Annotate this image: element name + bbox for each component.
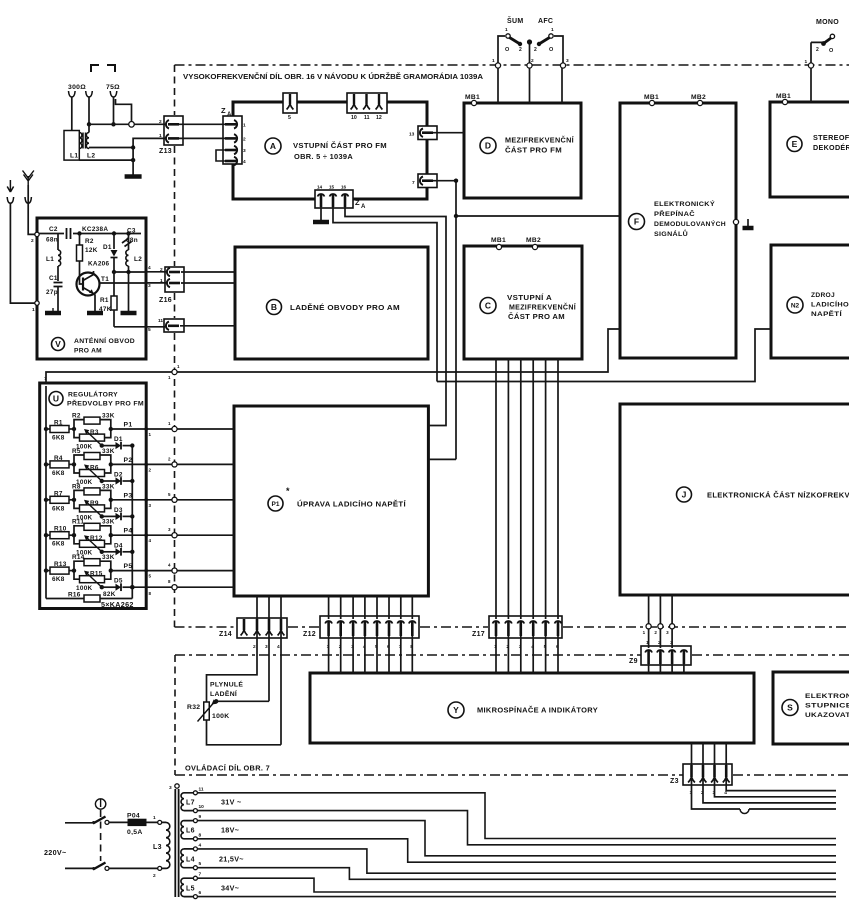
svg-text:L3: L3 <box>153 844 162 851</box>
svg-text:5: 5 <box>199 861 202 867</box>
svg-text:3: 3 <box>265 644 268 650</box>
svg-text:8: 8 <box>149 591 152 596</box>
connector Z9 <box>641 646 691 665</box>
svg-text:DEKODÉR: DEKODÉR <box>813 143 849 152</box>
svg-text:34V~: 34V~ <box>221 883 239 892</box>
resistor R13 6K8 <box>44 568 48 572</box>
svg-text:R4: R4 <box>54 455 63 462</box>
connector Z13 <box>164 116 183 145</box>
svg-text:7: 7 <box>199 872 202 878</box>
svg-text:1: 1 <box>805 59 808 65</box>
svg-text:1: 1 <box>153 815 156 821</box>
svg-text:MB1: MB1 <box>465 94 480 101</box>
svg-text:MB1: MB1 <box>491 237 506 244</box>
svg-text:5: 5 <box>288 115 291 121</box>
svg-text:7: 7 <box>412 180 415 186</box>
svg-text:82K: 82K <box>103 591 116 598</box>
svg-text:6K8: 6K8 <box>52 470 65 477</box>
wire secondary 9 to bottom bus <box>197 821 836 856</box>
svg-text:5: 5 <box>168 492 171 497</box>
potentiometer R9 100K <box>74 500 80 509</box>
svg-text:5×KA262: 5×KA262 <box>101 600 134 609</box>
svg-text:D: D <box>485 141 491 151</box>
wire secondary 6 bottom bus <box>197 896 836 898</box>
wire tuning bus to N2 <box>437 329 771 382</box>
svg-text:2: 2 <box>149 467 152 472</box>
svg-text:1: 1 <box>243 122 246 128</box>
svg-text:Z17: Z17 <box>472 631 485 638</box>
svg-text:R32: R32 <box>187 704 200 711</box>
svg-text:REGULÁTORY: REGULÁTORY <box>68 390 118 399</box>
svg-text:4: 4 <box>277 644 280 650</box>
svg-text:1: 1 <box>177 364 180 369</box>
resistor R5 33K <box>72 462 76 466</box>
wire lower pole to transformer <box>109 867 159 869</box>
svg-text:D2: D2 <box>114 472 123 479</box>
svg-text:R13: R13 <box>54 561 67 568</box>
svg-text:D1: D1 <box>103 244 112 251</box>
node P3 on dashed boundary <box>172 497 177 502</box>
nodes J wires on boundary <box>646 624 651 629</box>
diode D3 <box>100 514 104 518</box>
svg-text:LADĚNÉ OBVODY PRO AM: LADĚNÉ OBVODY PRO AM <box>290 303 400 312</box>
diode D1 KA206 <box>112 231 116 235</box>
block P1 UPRAVA LADICIHO NAPETI <box>234 406 428 596</box>
svg-text:33K: 33K <box>102 448 115 455</box>
svg-text:100K: 100K <box>212 713 229 720</box>
svg-text:Z16: Z16 <box>159 297 172 304</box>
connector pins 10 11 12 on top of block A <box>347 93 387 113</box>
svg-text:Y: Y <box>453 705 459 715</box>
boundary OVLADACI dil top dash-dot line <box>175 654 641 656</box>
wire 75 ohm to node <box>113 97 115 124</box>
svg-text:15: 15 <box>329 185 335 190</box>
svg-text:ČÁST PRO AM: ČÁST PRO AM <box>508 312 565 321</box>
resistor R8 33K <box>72 498 76 502</box>
svg-text:1: 1 <box>643 630 646 635</box>
node MB1 of block F <box>649 100 654 105</box>
svg-text:1: 1 <box>551 27 554 33</box>
potentiometer R3 100K <box>74 429 80 438</box>
svg-text:R11: R11 <box>72 519 84 526</box>
potentiometer R32 100K <box>204 702 210 720</box>
svg-text:F: F <box>634 217 639 227</box>
svg-text:3: 3 <box>566 58 569 64</box>
svg-text:KC238A: KC238A <box>82 226 108 233</box>
wires block Y bottom to Z3 <box>691 743 693 765</box>
potentiometer R12 100K <box>74 535 80 544</box>
transformer secondary L4 21,5V~ <box>181 849 184 868</box>
svg-text:R7: R7 <box>54 490 63 497</box>
svg-text:13: 13 <box>409 132 415 138</box>
block E STEREOFONNI DEKODER <box>770 102 849 197</box>
svg-text:P5: P5 <box>124 563 133 570</box>
svg-text:2: 2 <box>654 630 657 635</box>
svg-text:R2: R2 <box>72 413 81 420</box>
svg-text:R10: R10 <box>54 526 67 533</box>
wire secondary 4 to bottom bus <box>197 849 836 873</box>
block Y MIKROSPINACE A INDIKATORY <box>310 673 754 743</box>
connector Z17 <box>489 616 562 638</box>
block D MEZIFREKVENCNI CAST PRO FM <box>464 103 581 198</box>
svg-text:0,5A: 0,5A <box>127 829 143 836</box>
wire L2 top to antenna bus <box>88 124 90 132</box>
svg-text:4: 4 <box>243 159 246 165</box>
svg-text:L2: L2 <box>87 153 95 160</box>
resistor R1 6K8 <box>44 427 48 431</box>
wire T1 emitter to ground <box>94 294 96 312</box>
svg-text:MONO: MONO <box>816 19 839 26</box>
svg-text:220V~: 220V~ <box>44 848 66 857</box>
svg-text:11: 11 <box>364 115 370 121</box>
transformer core <box>175 789 178 897</box>
svg-text:1: 1 <box>149 432 152 437</box>
connector Z12 <box>320 616 419 638</box>
svg-text:PLYNULÉ: PLYNULÉ <box>210 680 243 689</box>
svg-text:2: 2 <box>253 644 256 650</box>
svg-text:31V ~: 31V ~ <box>221 798 241 807</box>
terminal 3 top of core <box>175 784 179 788</box>
block J ELEKTRONICKA CAST NIZKOFREKVENCNI <box>620 404 849 595</box>
resistor R14 33K <box>72 568 76 572</box>
block S ELEKTRONICKA STUPNICE <box>773 672 849 744</box>
resistor R2 12K <box>77 231 81 235</box>
wires Z9 to block Y <box>648 664 650 673</box>
wire Z13 to connector ZA pin2 <box>179 137 225 139</box>
svg-text:ELEKTRONICKÝ: ELEKTRONICKÝ <box>654 199 715 208</box>
svg-text:16: 16 <box>341 185 347 190</box>
svg-text:C1: C1 <box>49 275 58 282</box>
wire 75 ohm branch over to coax node <box>116 99 132 122</box>
svg-text:6: 6 <box>199 890 202 896</box>
wire R32 wiper to Z14 pin3 <box>214 699 218 703</box>
inductor L1 inside V <box>57 234 59 251</box>
wire junction 7 down to block P1 right edge <box>428 216 456 459</box>
wire AFC node to block D <box>561 68 563 103</box>
svg-text:V: V <box>55 339 61 349</box>
svg-text:14: 14 <box>317 185 323 190</box>
svg-text:3: 3 <box>168 527 171 532</box>
svg-text:4: 4 <box>149 538 152 543</box>
svg-text:P3: P3 <box>124 492 133 499</box>
svg-text:MB2: MB2 <box>691 94 706 101</box>
svg-text:ÚPRAVA LADICÍHO NAPĚTÍ: ÚPRAVA LADICÍHO NAPĚTÍ <box>297 500 407 509</box>
wire antenna to V pin 2 <box>28 185 37 234</box>
svg-text:11: 11 <box>199 786 204 792</box>
resistor R7 6K8 <box>44 498 48 502</box>
mains switch lower pole <box>65 867 94 869</box>
wire 300 ohm right leg to node <box>88 97 90 124</box>
svg-text:68n: 68n <box>46 237 58 244</box>
svg-text:Z14: Z14 <box>219 631 232 638</box>
svg-text:10: 10 <box>351 115 357 121</box>
boundary VF dil left dashed line <box>174 65 176 115</box>
wires Z3 pins to right edge <box>726 777 836 791</box>
wire U left rail <box>45 386 47 599</box>
wire Z13 pin1 to ground rail <box>133 138 166 160</box>
svg-text:R8: R8 <box>72 483 81 490</box>
svg-text:PŘEPÍNAČ: PŘEPÍNAČ <box>654 209 695 218</box>
svg-text:6K8: 6K8 <box>52 505 65 512</box>
block B LADENE OBVODY PRO AM <box>235 247 428 359</box>
svg-text:10: 10 <box>199 804 205 810</box>
svg-text:D4: D4 <box>114 542 123 549</box>
wire secondary 8 to bottom bus <box>197 839 836 862</box>
antenna symbol external <box>23 171 34 186</box>
svg-text:6K8: 6K8 <box>52 576 65 583</box>
svg-text:3: 3 <box>666 630 669 635</box>
svg-text:75Ω: 75Ω <box>106 84 120 91</box>
svg-text:Z3: Z3 <box>670 778 679 785</box>
block F ELEKTRONICKY PREPINAC DEMODULOVANYCH SIGNALU <box>620 103 736 358</box>
wire L1 box bottom to ground rail <box>79 159 133 161</box>
svg-text:6K8: 6K8 <box>52 435 65 442</box>
svg-text:N2: N2 <box>791 302 800 309</box>
svg-text:R12: R12 <box>90 535 103 542</box>
boundary OVLADACI dil left dashed line <box>174 655 176 775</box>
svg-text:2: 2 <box>168 456 171 461</box>
connector Z14 <box>237 618 287 638</box>
wire preset output P2 <box>109 462 113 466</box>
wire T1 collector to pin 3 row <box>94 271 168 283</box>
wire ZA pin16 to vertical x446 to block P1 <box>345 207 446 426</box>
svg-text:Z12: Z12 <box>303 631 316 638</box>
svg-text:D3: D3 <box>114 507 123 514</box>
wire secondary 5 to bottom bus <box>197 868 836 880</box>
svg-text:5: 5 <box>149 574 152 579</box>
svg-text:P1: P1 <box>272 501 280 508</box>
svg-text:Z: Z <box>355 198 360 207</box>
svg-text:2: 2 <box>153 873 156 879</box>
svg-text:18V~: 18V~ <box>221 826 239 835</box>
svg-text:VSTUPNÍ A: VSTUPNÍ A <box>507 293 552 302</box>
svg-text:STEREOFONNÍ: STEREOFONNÍ <box>813 133 849 142</box>
node P4 on dashed boundary <box>172 533 177 538</box>
svg-text:ŠUM: ŠUM <box>507 16 523 25</box>
resistor R2 33K <box>72 427 76 431</box>
wires block C bottom to Z17 to block Y <box>495 359 497 619</box>
svg-text:R15: R15 <box>90 571 103 578</box>
svg-text:D1: D1 <box>114 436 123 443</box>
transformer secondary L5 34V~ <box>181 878 184 896</box>
connector ZA bottom of block A pins 14 15 16 <box>315 190 353 208</box>
svg-text:AFC: AFC <box>538 18 553 25</box>
svg-text:R1: R1 <box>100 297 109 304</box>
svg-text:R1: R1 <box>54 420 63 427</box>
svg-text:3: 3 <box>149 503 152 508</box>
svg-text:2: 2 <box>243 136 246 142</box>
diode D5 <box>100 585 104 589</box>
transformer L1 L2 FM input <box>64 131 79 161</box>
boundary OVLADACI dil bottom dash-dot line <box>175 774 683 776</box>
svg-text:R5: R5 <box>72 448 81 455</box>
svg-text:OBR. 5 ÷ 1039A: OBR. 5 ÷ 1039A <box>294 152 353 161</box>
svg-text:MB1: MB1 <box>776 93 791 100</box>
svg-text:1: 1 <box>168 375 171 380</box>
svg-text:R16: R16 <box>68 592 81 599</box>
svg-text:ELEKTRONICKÁ ČÁST NÍZKOFREKVEN: ELEKTRONICKÁ ČÁST NÍZKOFREKVENČNÍ <box>707 491 849 500</box>
svg-text:T1: T1 <box>101 276 109 283</box>
svg-text:B: B <box>271 302 277 312</box>
svg-text:L6: L6 <box>186 828 195 835</box>
svg-text:VYSOKOFREKVENČNÍ DÍL OBR. 16 V: VYSOKOFREKVENČNÍ DÍL OBR. 16 V NÁVODU K … <box>183 72 483 81</box>
node 2 common on boundary <box>527 63 532 68</box>
svg-text:3: 3 <box>169 785 172 791</box>
svg-text:2: 2 <box>534 47 537 53</box>
wire common pole of SUM AFC <box>529 42 531 66</box>
svg-text:L1: L1 <box>70 153 78 160</box>
node MB1 of block C <box>496 244 501 249</box>
svg-text:LADĚNÍ: LADĚNÍ <box>210 689 238 698</box>
wire secondary 10 to bottom bus <box>197 811 836 845</box>
svg-text:2: 2 <box>816 47 819 53</box>
svg-text:O: O <box>829 48 834 54</box>
svg-text:7: 7 <box>44 376 47 382</box>
boundary VF dil top dash-dot line <box>175 64 849 66</box>
wire shorting ZA pins 3 and 4 <box>216 150 225 161</box>
svg-text:U: U <box>53 394 59 404</box>
svg-text:MEZIFREKVENČNÍ: MEZIFREKVENČNÍ <box>509 303 577 312</box>
balun corner marks <box>91 65 99 72</box>
output pin of block F with ground <box>733 219 738 224</box>
transformer L3 primary <box>158 820 162 824</box>
svg-text:3: 3 <box>148 283 151 289</box>
svg-text:ELEKTRONICKÁ: ELEKTRONICKÁ <box>805 691 849 700</box>
wire Z14 pin2 to R32 top <box>207 630 258 702</box>
svg-text:P04: P04 <box>127 813 140 820</box>
wire V block top rail <box>39 233 141 235</box>
svg-text:MB1: MB1 <box>644 94 659 101</box>
wire preset output P4 <box>109 533 113 537</box>
resistor R11 33K <box>72 533 76 537</box>
wire preset output P5 <box>109 568 113 572</box>
svg-text:P4: P4 <box>124 528 133 535</box>
node 3 AFC on boundary <box>560 63 565 68</box>
node 1 SUM on boundary <box>495 63 500 68</box>
svg-text:Z13: Z13 <box>159 148 172 155</box>
block C VSTUPNI A MEZIFREKVENCNI CAST PRO AM <box>464 246 582 359</box>
node MB1 of block E <box>782 99 787 104</box>
node P1 on dashed boundary <box>172 426 177 431</box>
block V ANTENNI OBVOD PRO AM <box>37 218 146 359</box>
svg-text:O: O <box>549 47 554 53</box>
svg-text:MEZIFREKVENČNÍ: MEZIFREKVENČNÍ <box>505 136 575 145</box>
svg-text:R2: R2 <box>85 238 94 245</box>
svg-text:1: 1 <box>492 58 495 64</box>
wires block P1 bottom to Z12 to block Y <box>328 596 330 619</box>
fuse P04 0.5A <box>109 821 159 823</box>
wire connector 13 to block D <box>433 132 464 134</box>
wire ground antenna to V pin 1 <box>10 203 37 303</box>
ground FM antenna <box>132 160 134 175</box>
resistor R4 6K8 <box>44 462 48 466</box>
svg-text:ANTÉNNÍ OBVOD: ANTÉNNÍ OBVOD <box>74 336 135 345</box>
connector Z3 <box>683 764 732 785</box>
svg-text:NAPĚTÍ: NAPĚTÍ <box>811 309 843 318</box>
svg-text:9: 9 <box>199 814 202 820</box>
svg-text:DEMODULOVANÝCH: DEMODULOVANÝCH <box>654 219 726 228</box>
wire preset output P1 <box>109 427 113 431</box>
node MB2 of block C <box>532 244 537 249</box>
svg-text:4: 4 <box>148 265 151 271</box>
svg-text:4: 4 <box>168 563 171 568</box>
svg-text:S: S <box>787 703 793 713</box>
wire connector 7 to junction and block F <box>433 181 620 216</box>
svg-text:33K: 33K <box>102 519 115 526</box>
svg-text:1: 1 <box>168 421 171 426</box>
svg-text:8: 8 <box>168 579 171 584</box>
wire common node to block D <box>529 68 531 103</box>
svg-text:O: O <box>505 47 510 53</box>
svg-text:VSTUPNÍ ČÁST PRO FM: VSTUPNÍ ČÁST PRO FM <box>293 141 387 150</box>
resistor R1 47K <box>113 272 115 296</box>
svg-text:300Ω: 300Ω <box>68 84 86 91</box>
svg-text:PRO AM: PRO AM <box>74 348 102 355</box>
capacitor C1 <box>57 266 59 281</box>
svg-text:MB2: MB2 <box>526 237 541 244</box>
wires Z16 to block B <box>181 271 235 273</box>
block N2 ZDROJ LADICIHO NAPETI <box>771 245 849 358</box>
potentiometer R15 100K <box>74 571 80 580</box>
inductor L2 inside V <box>126 231 130 235</box>
svg-text:ZDROJ: ZDROJ <box>811 292 835 299</box>
node P5 on dashed boundary <box>172 568 177 573</box>
ground antenna symbol with down arrow <box>7 180 13 192</box>
connector 7 right of block A <box>418 174 437 188</box>
wire preset output P3 <box>109 498 113 502</box>
svg-text:L2: L2 <box>134 256 142 263</box>
svg-text:A: A <box>361 204 366 210</box>
svg-text:ČÁST PRO FM: ČÁST PRO FM <box>505 146 562 155</box>
capacitor C2 <box>67 228 71 239</box>
svg-text:UKAZOVATELE: UKAZOVATELE <box>805 712 849 719</box>
svg-text:33K: 33K <box>102 554 115 561</box>
connector pin 5 on top of block A <box>283 93 297 113</box>
svg-text:1: 1 <box>32 307 35 313</box>
svg-text:33K: 33K <box>102 413 115 420</box>
resistor R16 82K <box>46 598 84 600</box>
svg-text:2: 2 <box>31 238 34 244</box>
wire Z13 to connector ZA pin1 <box>179 123 225 125</box>
svg-text:47K: 47K <box>99 306 112 313</box>
svg-text:KA206: KA206 <box>88 261 110 268</box>
ground at ZA pin14 <box>320 207 322 221</box>
svg-text:L4: L4 <box>186 856 195 863</box>
ground L2 bottom <box>128 272 130 311</box>
svg-text:1: 1 <box>505 27 508 33</box>
svg-text:5: 5 <box>148 327 151 333</box>
svg-text:21,5V~: 21,5V~ <box>219 854 244 863</box>
wire secondary 7 to bottom bus <box>197 878 836 892</box>
wire ZA pin15 to vertical x437 to tuning bus <box>333 207 437 382</box>
svg-text:L5: L5 <box>186 885 195 892</box>
svg-text:J: J <box>682 490 687 500</box>
svg-text:STUPNICE A: STUPNICE A <box>805 703 849 710</box>
wire antenna bus to Z13 pin 2 <box>89 123 166 125</box>
connector pin 11 below Z16 <box>164 319 184 332</box>
wire U right diode rail <box>131 446 133 599</box>
wire L2 bottom to ground rail <box>89 148 133 149</box>
potentiometer R6 100K <box>74 464 80 473</box>
node MONO on boundary <box>808 63 813 68</box>
node AFC bus on dashed boundary <box>172 369 177 374</box>
transistor T1 <box>77 273 100 296</box>
connector Z16 <box>165 267 184 292</box>
svg-text:C: C <box>485 301 491 311</box>
wire SUM node to block D <box>497 68 499 103</box>
svg-text:8: 8 <box>199 832 202 838</box>
svg-text:E: E <box>792 139 798 149</box>
